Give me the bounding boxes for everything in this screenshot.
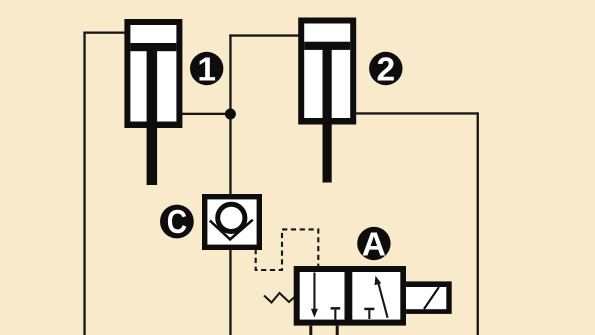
check valve C body (202, 194, 262, 250)
wire: left vertical supply line (83, 32, 85, 335)
valve A: right box diagonal arrow (375, 276, 388, 318)
node: junction dot (225, 109, 236, 120)
wire: cylinder 1 right port to junction (180, 113, 231, 115)
svg-text:C: C (167, 203, 187, 241)
cylinder 2 (298, 18, 356, 183)
pilot dashed line from C to valve A (256, 229, 319, 270)
svg-text:2: 2 (376, 52, 395, 89)
svg-text:1: 1 (197, 52, 216, 89)
valve A: bottom port stub left (309, 326, 312, 335)
svg-text:A: A (362, 227, 386, 264)
valve A: left box flow arrow (down) (311, 273, 318, 318)
wire: cylinder 2 right port horizontal (354, 112, 478, 114)
valve A: left box blocked port T (331, 307, 341, 319)
wire: top-left horizontal to cylinder 1 (83, 32, 126, 34)
cylinder 1 (124, 19, 182, 185)
valve A body (two-position boxes) (294, 266, 406, 326)
valve A: pilot box (right, with diagonal) (406, 281, 452, 314)
badge A (357, 227, 390, 264)
wire: below valve C down to bottom edge (229, 248, 231, 335)
wire: center vertical through junction down to valve C (229, 34, 231, 195)
badge 2 (369, 52, 402, 89)
valve A: right box blocked port T (364, 308, 374, 319)
valve A: spring (left) (264, 293, 295, 303)
valve A: bottom port stub right (336, 326, 339, 335)
badge C (160, 203, 194, 241)
wire: right vertical down to bottom edge (477, 112, 479, 335)
badge 1 (190, 52, 223, 89)
wire: horizontal to cylinder 2 (229, 34, 299, 36)
